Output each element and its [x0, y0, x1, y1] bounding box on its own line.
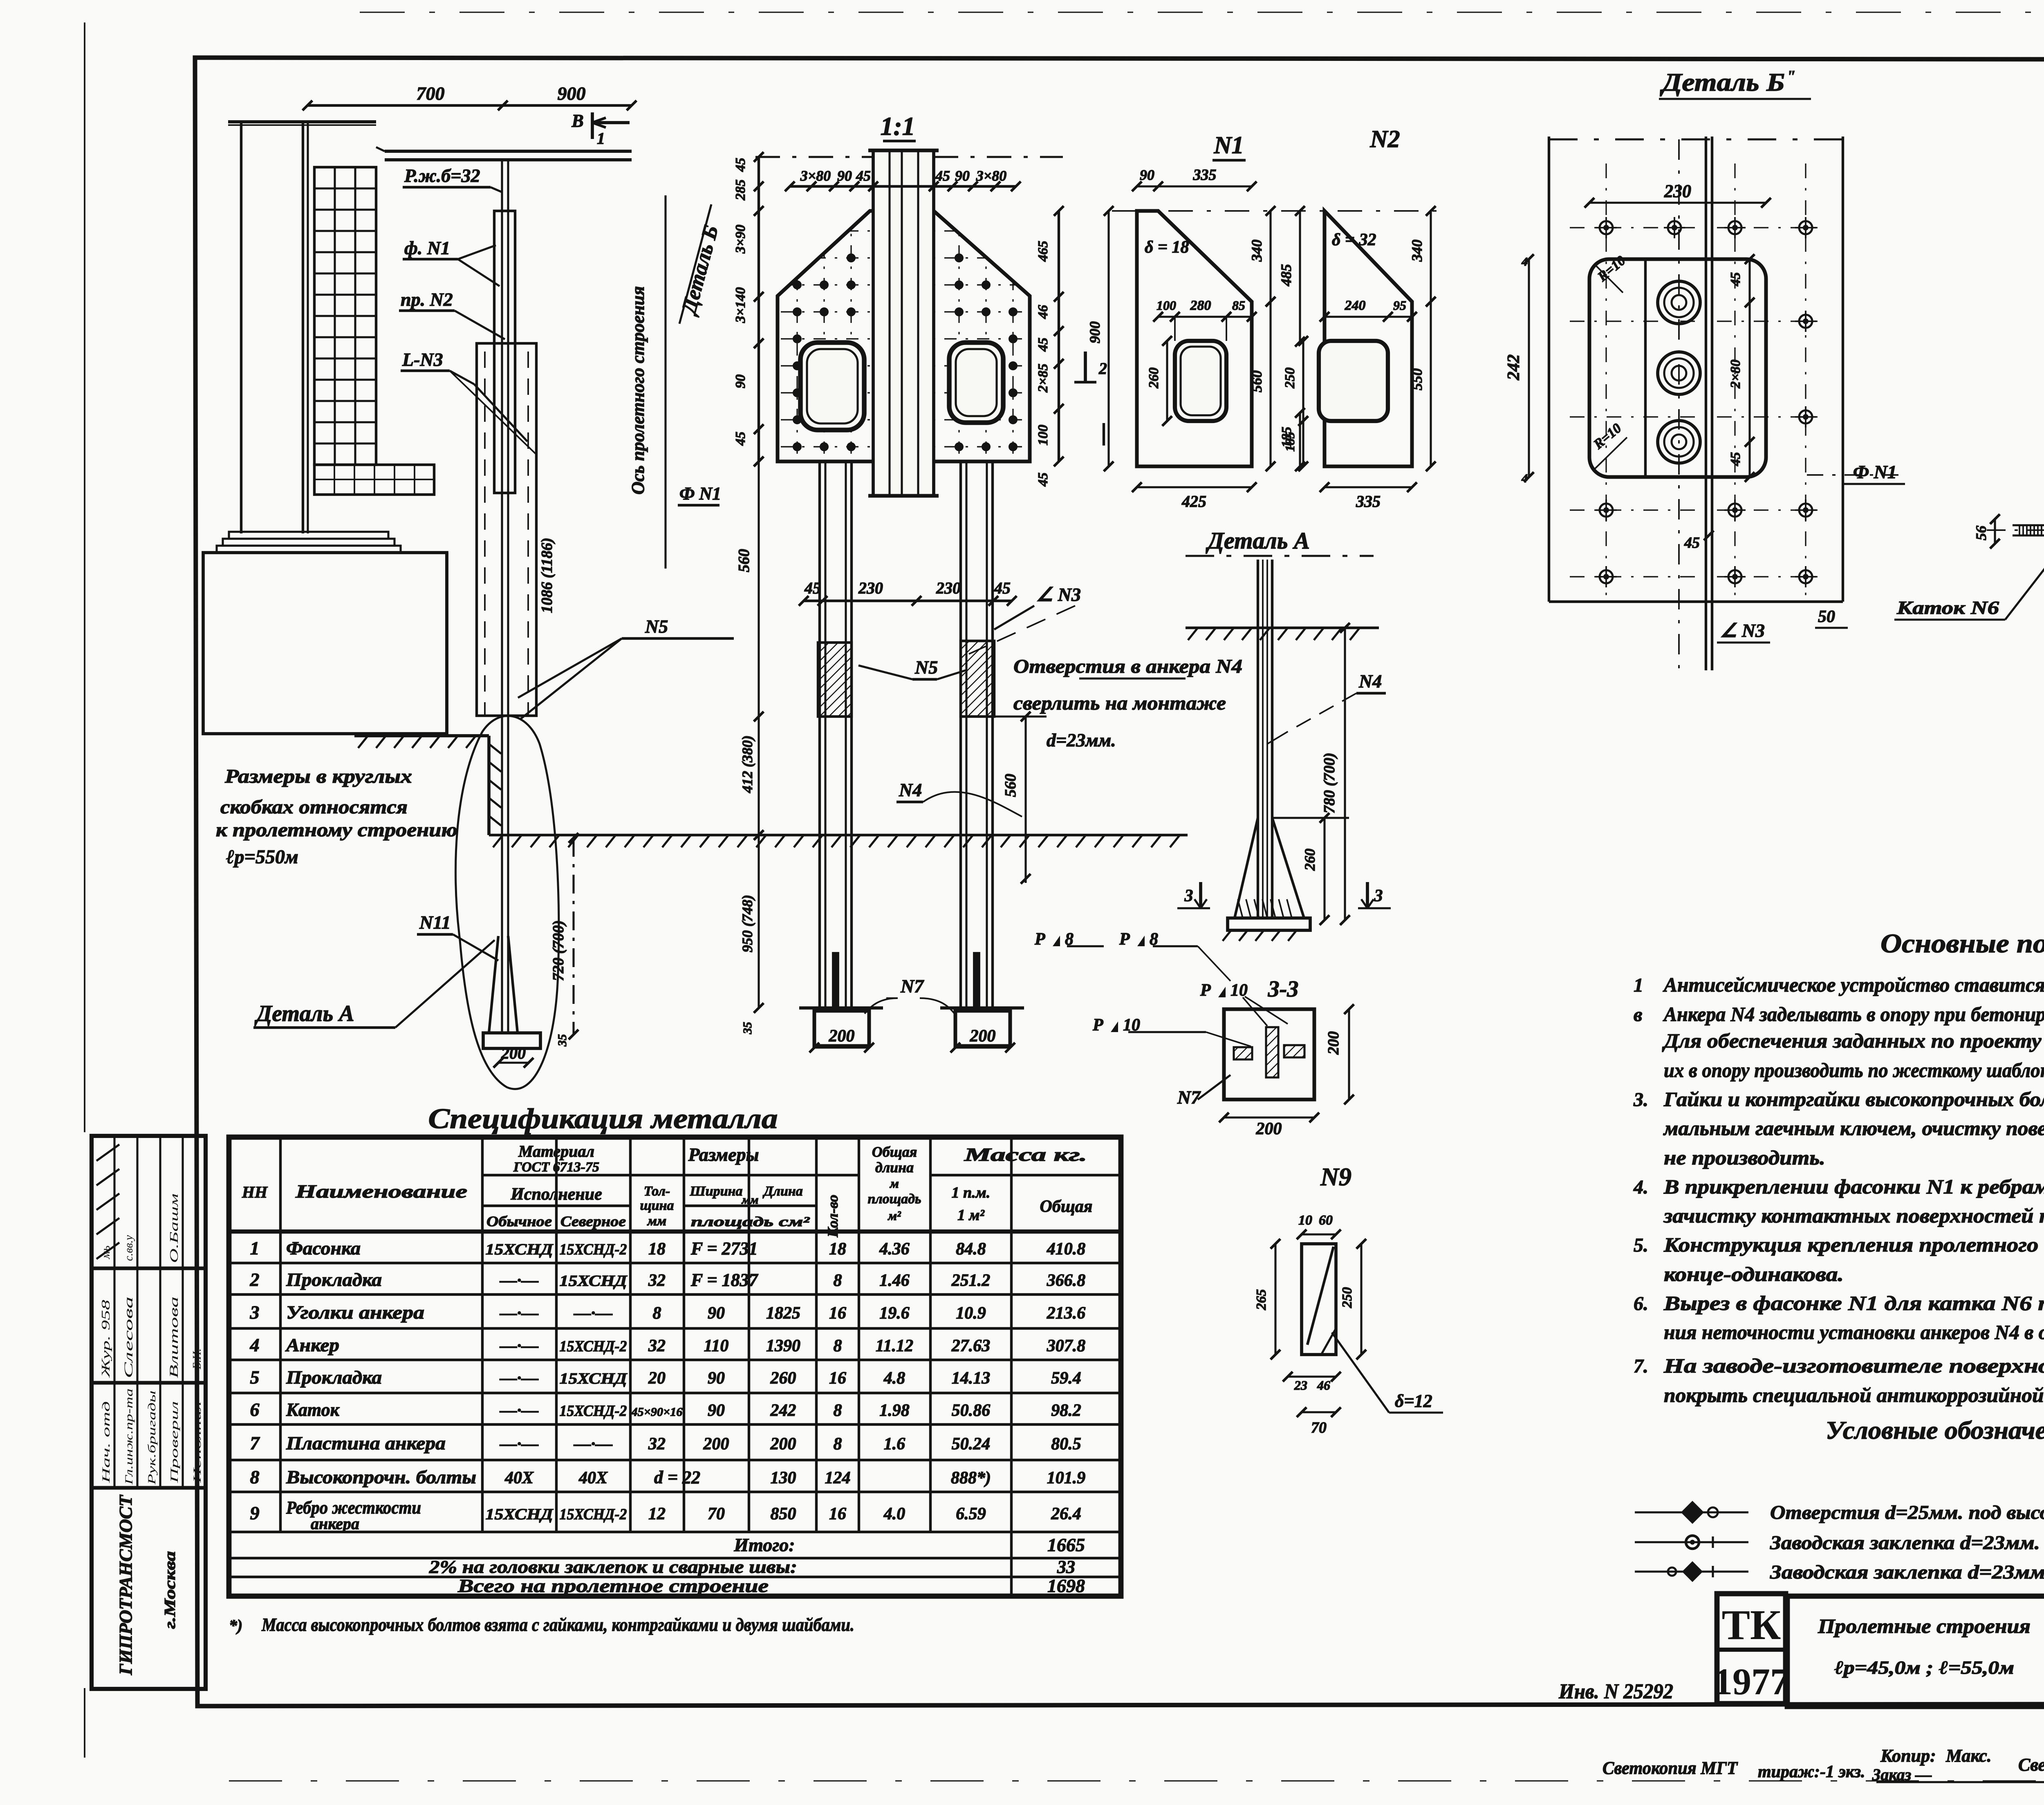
svg-text:46: 46 — [1317, 1378, 1330, 1393]
svg-text:Условные обозначения:: Условные обозначения: — [1826, 1417, 2044, 1444]
svg-text:80.5: 80.5 — [1051, 1435, 1081, 1453]
svg-text:Итого:: Итого: — [733, 1534, 795, 1555]
svg-text:200: 200 — [703, 1435, 729, 1453]
svg-text:2: 2 — [1098, 359, 1107, 378]
svg-text:∠ N3: ∠ N3 — [1036, 584, 1081, 605]
svg-text:70: 70 — [1311, 1419, 1327, 1436]
svg-text:R=10: R=10 — [1591, 421, 1625, 452]
svg-text:200: 200 — [829, 1027, 855, 1046]
svg-text:20: 20 — [648, 1369, 666, 1388]
svg-text:90: 90 — [837, 168, 852, 184]
svg-text:26.4: 26.4 — [1051, 1505, 1081, 1523]
svg-text:1 п.м.: 1 п.м. — [952, 1184, 991, 1201]
svg-text:5: 5 — [250, 1367, 260, 1388]
svg-text:9: 9 — [250, 1503, 260, 1523]
svg-text:15ХСНД: 15ХСНД — [486, 1241, 554, 1258]
svg-text:2×80: 2×80 — [1728, 360, 1743, 389]
svg-text:100: 100 — [1156, 298, 1176, 313]
svg-text:сверлить на монтаже: сверлить на монтаже — [1013, 692, 1226, 714]
svg-text:Обычное: Обычное — [486, 1213, 552, 1229]
svg-text:Влитова: Влитова — [167, 1297, 181, 1378]
svg-text:250: 250 — [1340, 1287, 1355, 1308]
svg-text:—·—: —·— — [500, 1401, 539, 1420]
svg-text:площадь см²: площадь см² — [691, 1214, 810, 1229]
svg-text:N9: N9 — [1320, 1163, 1351, 1191]
svg-text:4: 4 — [1521, 255, 1528, 269]
svg-text:410.8: 410.8 — [1047, 1240, 1086, 1259]
svg-text:зачистку контактных поверхност: зачистку контактных поверхностей произво… — [1663, 1204, 2044, 1227]
svg-text:2% на головки заклепок и свар: 2% на головки заклепок и сварные швы: — [429, 1557, 797, 1577]
svg-text:45: 45 — [1035, 473, 1051, 487]
svg-text:11.12: 11.12 — [876, 1337, 913, 1355]
svg-text:200: 200 — [1256, 1120, 1282, 1138]
svg-text:780 (700): 780 (700) — [1321, 752, 1338, 813]
svg-text:их в опору производить по жест: их в опору производить по жесткому шабло… — [1664, 1059, 2044, 1082]
svg-text:45: 45 — [733, 158, 748, 172]
svg-text:15ХСНД: 15ХСНД — [560, 1370, 628, 1387]
svg-text:230: 230 — [936, 579, 961, 597]
svg-text:200: 200 — [770, 1435, 796, 1453]
svg-text:δ=12: δ=12 — [1395, 1391, 1432, 1411]
svg-text:1 м²: 1 м² — [957, 1207, 985, 1224]
svg-text:Инв. N 25292: Инв. N 25292 — [1558, 1680, 1673, 1703]
svg-text:7: 7 — [250, 1433, 260, 1453]
svg-text:Деталь А: Деталь А — [1206, 527, 1310, 554]
svg-text:307.8: 307.8 — [1047, 1337, 1086, 1355]
svg-text:Ф N1: Ф N1 — [679, 484, 721, 504]
svg-text:На заводе-изготовителе поверхн: На заводе-изготовителе поверхность анкер… — [1663, 1354, 2044, 1377]
svg-text:Жур. 958: Жур. 958 — [100, 1300, 112, 1378]
svg-text:δ = 18: δ = 18 — [1145, 238, 1189, 257]
svg-text:340: 340 — [1409, 240, 1425, 262]
svg-text:425: 425 — [1181, 492, 1206, 511]
svg-text:∠ N3: ∠ N3 — [1720, 620, 1765, 641]
svg-text:Деталь А: Деталь А — [254, 1001, 354, 1026]
svg-text:185: 185 — [1282, 432, 1297, 452]
svg-text:90: 90 — [708, 1401, 725, 1420]
svg-text:Р: Р — [1119, 930, 1130, 949]
svg-text:230: 230 — [1664, 181, 1691, 201]
svg-text:N7: N7 — [900, 976, 924, 997]
svg-text:50.86: 50.86 — [952, 1401, 991, 1420]
svg-text:г.Москва: г.Москва — [161, 1551, 179, 1629]
svg-text:124: 124 — [825, 1469, 851, 1487]
svg-text:м²: м² — [887, 1208, 901, 1223]
svg-text:8: 8 — [834, 1401, 842, 1420]
svg-text:ГОСТ 6713-75: ГОСТ 6713-75 — [513, 1160, 599, 1175]
svg-text:О.Башм: О.Башм — [168, 1194, 181, 1263]
svg-text:Пластина анкера: Пластина анкера — [286, 1433, 446, 1453]
svg-text:N4: N4 — [1358, 671, 1382, 692]
svg-text:N5: N5 — [645, 616, 668, 637]
svg-text:1.46: 1.46 — [879, 1271, 910, 1290]
svg-text:N7: N7 — [1177, 1087, 1201, 1108]
svg-text:100: 100 — [1035, 425, 1051, 446]
svg-text:340: 340 — [1248, 240, 1265, 262]
svg-text:850: 850 — [771, 1505, 796, 1523]
svg-text:d=23мм.: d=23мм. — [1047, 730, 1116, 750]
svg-text:40Х: 40Х — [504, 1469, 534, 1487]
svg-text:Сверил:: Сверил: — [2018, 1755, 2044, 1775]
svg-text:—·—: —·— — [500, 1271, 539, 1290]
svg-text:45: 45 — [994, 579, 1011, 597]
svg-text:Анкер: Анкер — [285, 1335, 339, 1355]
svg-text:700: 700 — [417, 83, 445, 104]
svg-text:Р: Р — [1092, 1016, 1103, 1035]
svg-text:1:1: 1:1 — [880, 112, 915, 141]
svg-text:Всего на пролетное строение: Всего на пролетное строение — [457, 1575, 769, 1596]
svg-text:НН: НН — [242, 1183, 268, 1201]
svg-text:14.13: 14.13 — [952, 1369, 991, 1388]
svg-text:242: 242 — [1504, 354, 1523, 381]
svg-text:46: 46 — [1035, 305, 1051, 319]
svg-text:ния неточности установки анкер: ния неточности установки анкеров N4 в оп… — [1664, 1321, 2044, 1344]
svg-text:Исполнение: Исполнение — [510, 1185, 602, 1204]
svg-text:242: 242 — [770, 1401, 796, 1420]
svg-text:ℓр=550м: ℓр=550м — [226, 846, 298, 868]
svg-text:45: 45 — [1728, 452, 1743, 466]
svg-text:32: 32 — [648, 1337, 666, 1355]
svg-text:260: 260 — [1302, 849, 1318, 871]
svg-text:Отверстия d=25мм. под высокопр: Отверстия d=25мм. под высокопрочный болт… — [1770, 1502, 2044, 1523]
svg-text:40Х: 40Х — [578, 1469, 608, 1487]
svg-text:3: 3 — [1184, 887, 1193, 905]
svg-text:1: 1 — [250, 1238, 260, 1259]
svg-text:1: 1 — [597, 129, 605, 148]
svg-text:ТК: ТК — [1722, 1601, 1781, 1648]
svg-text:Антисейсмическое устройство ст: Антисейсмическое устройство ставится тол… — [1663, 973, 2044, 996]
svg-text:45: 45 — [1684, 534, 1700, 551]
svg-text:L-N3: L-N3 — [402, 349, 443, 370]
svg-text:3×140: 3×140 — [733, 287, 748, 323]
svg-text:мм: мм — [741, 1193, 758, 1207]
svg-text:45: 45 — [856, 168, 871, 184]
svg-text:Масса высокопрочных болтов взя: Масса высокопрочных болтов взята с гайка… — [261, 1614, 854, 1635]
svg-text:3.: 3. — [1633, 1089, 1648, 1111]
svg-text:щина: щина — [640, 1198, 674, 1213]
svg-text:560: 560 — [1248, 370, 1265, 392]
svg-text:Вырез в фасонке N1 для катка N: Вырез в фасонке N1 для катка N6 принят с… — [1663, 1292, 2044, 1315]
svg-text:7.: 7. — [1634, 1355, 1648, 1377]
svg-text:15ХСНД-2: 15ХСНД-2 — [560, 1338, 627, 1355]
svg-text:4: 4 — [1521, 472, 1528, 485]
svg-text:Прокладка: Прокладка — [286, 1269, 382, 1290]
svg-text:260: 260 — [1146, 367, 1161, 389]
svg-text:720 (700): 720 (700) — [550, 920, 567, 981]
svg-text:Анкера N4 заделывать в опору п: Анкера N4 заделывать в опору при бетонир… — [1663, 1003, 2044, 1026]
svg-text:45: 45 — [733, 432, 748, 446]
svg-text:—·—: —·— — [574, 1435, 613, 1453]
svg-text:3×80: 3×80 — [976, 168, 1007, 184]
svg-text:18: 18 — [648, 1240, 666, 1259]
svg-text:Копир:: Копир: — [1880, 1746, 1936, 1766]
svg-text:Северное: Северное — [560, 1213, 626, 1229]
svg-text:—·—: —·— — [500, 1435, 539, 1453]
svg-text:45: 45 — [1035, 338, 1051, 352]
svg-text:мальным гаечным ключем, очистк: мальным гаечным ключем, очистку поверхно… — [1663, 1117, 2044, 1140]
svg-text:1698: 1698 — [1047, 1575, 1085, 1596]
svg-text:не производить.: не производить. — [1664, 1146, 1825, 1169]
svg-text:Деталь Б: Деталь Б — [677, 223, 723, 318]
svg-text:1390: 1390 — [766, 1337, 800, 1355]
svg-text:ф. N1: ф. N1 — [404, 237, 450, 258]
svg-text:1665: 1665 — [1047, 1534, 1085, 1555]
svg-text:32: 32 — [648, 1435, 666, 1453]
svg-text:Масса кг.: Масса кг. — [964, 1144, 1087, 1165]
svg-text:4.0: 4.0 — [883, 1505, 905, 1523]
svg-text:465: 465 — [1035, 241, 1051, 262]
svg-text:265: 265 — [1254, 1289, 1269, 1310]
svg-text:длина: длина — [875, 1159, 914, 1176]
svg-text:33: 33 — [1057, 1557, 1075, 1577]
svg-text:10: 10 — [1298, 1213, 1312, 1228]
svg-text:32: 32 — [648, 1271, 666, 1290]
svg-text:Тол-: Тол- — [644, 1184, 670, 1199]
svg-text:18: 18 — [829, 1240, 846, 1259]
svg-text:15ХСНД: 15ХСНД — [486, 1506, 554, 1523]
svg-text:1: 1 — [1634, 974, 1643, 996]
svg-text:15ХСНД-2: 15ХСНД-2 — [560, 1506, 627, 1523]
svg-text:в: в — [1634, 1004, 1642, 1026]
svg-text:15ХСНД: 15ХСНД — [560, 1272, 628, 1290]
svg-text:Слесова: Слесова — [122, 1297, 135, 1378]
svg-text:2×85: 2×85 — [1035, 364, 1051, 393]
svg-text:59.4: 59.4 — [1051, 1369, 1081, 1388]
svg-text:16: 16 — [829, 1304, 846, 1323]
svg-text:85: 85 — [1232, 298, 1245, 313]
svg-text:56: 56 — [1973, 526, 1989, 540]
svg-text:335: 335 — [1356, 492, 1381, 511]
svg-text:230: 230 — [858, 579, 883, 597]
svg-text:Нач. отд: Нач. отд — [100, 1401, 112, 1484]
svg-text:Каток N6: Каток N6 — [1896, 597, 1999, 618]
svg-text:N5: N5 — [914, 657, 938, 678]
svg-text:F = 2731: F = 2731 — [690, 1238, 758, 1259]
svg-text:Р: Р — [1200, 981, 1211, 1000]
svg-text:3×80: 3×80 — [800, 168, 831, 184]
svg-text:90: 90 — [955, 168, 970, 184]
svg-text:δ = 32: δ = 32 — [1332, 231, 1376, 249]
svg-text:110: 110 — [704, 1337, 729, 1355]
svg-text:d = 22: d = 22 — [654, 1467, 700, 1487]
svg-text:": " — [1786, 67, 1795, 85]
svg-text:Ось пролетного строения: Ось пролетного строения — [628, 286, 648, 495]
svg-text:16: 16 — [829, 1505, 846, 1523]
svg-text:45×90×16: 45×90×16 — [631, 1405, 682, 1419]
svg-text:260: 260 — [770, 1369, 796, 1388]
svg-text:Фасонка: Фасонка — [286, 1238, 361, 1259]
svg-text:Отверстия в анкера N4: Отверстия в анкера N4 — [1013, 656, 1242, 677]
svg-text:Гайки и контргайки высокопрочн: Гайки и контргайки высокопрочных болтов … — [1663, 1088, 2044, 1111]
svg-text:6: 6 — [250, 1399, 260, 1420]
svg-text:Заказ —: Заказ — — [1872, 1765, 1932, 1784]
svg-text:70: 70 — [708, 1505, 725, 1523]
svg-text:950 (748): 950 (748) — [739, 895, 755, 952]
svg-text:8: 8 — [834, 1271, 842, 1290]
svg-text:95: 95 — [1393, 298, 1406, 313]
svg-text:Р: Р — [1034, 930, 1045, 949]
svg-text:45: 45 — [804, 579, 821, 597]
svg-text:Уголки анкера: Уголки анкера — [286, 1302, 424, 1323]
svg-text:8: 8 — [250, 1467, 260, 1487]
svg-text:560: 560 — [1002, 774, 1019, 797]
svg-text:900: 900 — [1087, 321, 1103, 343]
svg-text:конце-одинакова.: конце-одинакова. — [1664, 1263, 1844, 1285]
svg-text:Макс.: Макс. — [1945, 1746, 1992, 1766]
svg-text:90: 90 — [708, 1304, 725, 1323]
svg-text:84.8: 84.8 — [956, 1240, 986, 1259]
svg-text:Конструкция крепления пролетно: Конструкция крепления пролетного строени… — [1663, 1233, 2044, 1256]
svg-text:Размеры в круглых: Размеры в круглых — [224, 766, 412, 787]
svg-text:Общая: Общая — [872, 1144, 917, 1160]
svg-text:F = 1837: F = 1837 — [690, 1270, 759, 1290]
svg-text:м: м — [889, 1176, 899, 1191]
svg-text:3: 3 — [1374, 887, 1383, 905]
svg-text:90: 90 — [708, 1369, 725, 1388]
svg-text:Высокопрочн. болты: Высокопрочн. болты — [286, 1467, 476, 1487]
svg-text:Длина: Длина — [762, 1184, 802, 1199]
svg-text:В: В — [571, 111, 583, 131]
svg-text:250: 250 — [1282, 367, 1298, 389]
svg-text:Наименование: Наименование — [295, 1181, 467, 1202]
svg-text:—·—: —·— — [500, 1369, 539, 1388]
svg-text:пр. N2: пр. N2 — [401, 289, 453, 310]
svg-text:1086 (1186): 1086 (1186) — [538, 537, 556, 613]
svg-text:Основные положения:: Основные положения: — [1880, 929, 2044, 958]
svg-text:N1: N1 — [1213, 132, 1244, 159]
svg-text:Пролетные строения: Пролетные строения — [1818, 1615, 2031, 1637]
svg-text:Проверил: Проверил — [168, 1401, 180, 1484]
svg-text:285: 285 — [733, 179, 748, 201]
svg-text:6.59: 6.59 — [956, 1505, 986, 1523]
svg-text:12: 12 — [648, 1505, 666, 1523]
svg-text:19.6: 19.6 — [879, 1304, 910, 1323]
svg-text:*): *) — [229, 1616, 242, 1635]
svg-text:213.6: 213.6 — [1047, 1304, 1086, 1323]
svg-text:550: 550 — [1409, 368, 1425, 390]
svg-text:Кол-во: Кол-во — [825, 1195, 841, 1238]
svg-text:—·—: —·— — [500, 1337, 539, 1355]
svg-text:485: 485 — [1278, 264, 1294, 287]
svg-text:130: 130 — [771, 1469, 796, 1487]
svg-text:4.8: 4.8 — [883, 1369, 905, 1388]
svg-text:251.2: 251.2 — [951, 1271, 991, 1290]
svg-text:27.63: 27.63 — [951, 1337, 991, 1355]
svg-text:1.6: 1.6 — [884, 1435, 905, 1453]
svg-text:35: 35 — [741, 1022, 754, 1035]
svg-text:ГИПРОТРАНСМОСТ: ГИПРОТРАНСМОСТ — [116, 1494, 136, 1675]
svg-text:анкера: анкера — [311, 1514, 359, 1533]
svg-text:280: 280 — [1190, 298, 1211, 313]
svg-text:Б.И.: Б.И. — [191, 1348, 204, 1370]
svg-text:366.8: 366.8 — [1047, 1271, 1086, 1290]
svg-text:N4: N4 — [899, 779, 922, 800]
svg-text:мм: мм — [647, 1214, 667, 1229]
svg-text:8: 8 — [834, 1337, 842, 1355]
svg-text:1977: 1977 — [1714, 1661, 1789, 1702]
svg-text:Р.ж.б=32: Р.ж.б=32 — [404, 165, 480, 186]
svg-text:с.вв.у: с.вв.у — [123, 1235, 135, 1261]
svg-text:900: 900 — [558, 83, 586, 104]
svg-text:50.24: 50.24 — [952, 1435, 991, 1453]
svg-text:Исполнил: Исполнил — [191, 1401, 203, 1484]
svg-text:площадь: площадь — [867, 1191, 921, 1207]
svg-text:888*): 888*) — [951, 1469, 991, 1487]
svg-text:тираж:-1 экз.: тираж:-1 экз. — [1758, 1762, 1865, 1781]
svg-text:8: 8 — [653, 1304, 661, 1323]
svg-text:Спецификация металла: Спецификация металла — [428, 1103, 778, 1135]
svg-text:200: 200 — [1325, 1031, 1342, 1055]
svg-text:1825: 1825 — [766, 1304, 800, 1323]
svg-text:Материал: Материал — [518, 1142, 594, 1160]
svg-text:—·—: —·— — [574, 1304, 613, 1323]
svg-text:240: 240 — [1345, 298, 1366, 313]
svg-text:Заводская заклепка d=23мм.-дво: Заводская заклепка d=23мм.-двойной потай… — [1770, 1561, 2044, 1583]
svg-text:1.98: 1.98 — [879, 1401, 910, 1420]
svg-text:3×90: 3×90 — [733, 225, 748, 254]
svg-text:Для обеспечения заданных по пр: Для обеспечения заданных по проекту разм… — [1662, 1029, 2044, 1052]
svg-text:45: 45 — [935, 168, 950, 184]
svg-text:Гл.инж.пр-та: Гл.инж.пр-та — [123, 1388, 135, 1485]
svg-text:Ширина: Ширина — [690, 1184, 743, 1199]
svg-text:3-3: 3-3 — [1268, 976, 1299, 1002]
svg-text:Ф N1: Ф N1 — [1853, 461, 1897, 482]
svg-text:N11: N11 — [419, 912, 451, 933]
svg-text:Прокладка: Прокладка — [286, 1367, 382, 1388]
svg-text:ℓр=45,0м ; ℓ=55,0м: ℓр=45,0м ; ℓ=55,0м — [1834, 1657, 2014, 1678]
svg-text:16: 16 — [829, 1369, 846, 1388]
svg-text:к пролетному строению: к пролетному строению — [216, 819, 457, 841]
svg-text:6.: 6. — [1634, 1293, 1648, 1315]
svg-text:3: 3 — [250, 1302, 260, 1323]
svg-text:90: 90 — [733, 374, 748, 388]
svg-text:—·—: —·— — [500, 1304, 539, 1323]
svg-text:15ХСНД-2: 15ХСНД-2 — [560, 1402, 627, 1420]
svg-text:200: 200 — [970, 1027, 996, 1046]
svg-text:98.2: 98.2 — [1051, 1401, 1081, 1420]
svg-text:50: 50 — [1818, 607, 1835, 626]
svg-text:мь: мь — [99, 1245, 112, 1259]
svg-text:8: 8 — [834, 1435, 842, 1453]
svg-text:90: 90 — [1140, 167, 1154, 183]
svg-text:200: 200 — [501, 1044, 526, 1062]
svg-text:Деталь Б: Деталь Б — [1660, 69, 1785, 96]
svg-text:15ХСНД-2: 15ХСНД-2 — [560, 1241, 627, 1258]
svg-text:101.9: 101.9 — [1047, 1469, 1086, 1487]
svg-text:В прикреплении фасонки N1 к ре: В прикреплении фасонки N1 к ребрам жестк… — [1663, 1175, 2044, 1198]
svg-text:скобках относятся: скобках относятся — [220, 796, 408, 818]
svg-text:5.: 5. — [1634, 1234, 1648, 1256]
svg-text:Каток: Каток — [286, 1399, 340, 1420]
svg-text:Общая: Общая — [1040, 1197, 1093, 1216]
svg-text:45: 45 — [1728, 272, 1743, 287]
svg-text:335: 335 — [1193, 166, 1217, 184]
svg-text:Рук.бригады: Рук.бригады — [146, 1391, 158, 1485]
svg-text:Заводская заклепка d=23мм.: Заводская заклепка d=23мм. — [1770, 1532, 2040, 1554]
svg-text:412 (380): 412 (380) — [739, 735, 755, 793]
svg-text:35: 35 — [556, 1034, 569, 1047]
svg-text:N2: N2 — [1369, 125, 1400, 152]
svg-text:4.: 4. — [1633, 1176, 1648, 1198]
svg-text:60: 60 — [1319, 1213, 1333, 1228]
svg-text:560: 560 — [735, 549, 753, 572]
svg-text:23: 23 — [1294, 1378, 1307, 1393]
svg-text:2: 2 — [250, 1269, 260, 1290]
svg-text:4.36: 4.36 — [879, 1240, 910, 1259]
svg-text:Размеры: Размеры — [688, 1144, 759, 1165]
svg-text:Светокопия МГТ: Светокопия МГТ — [1602, 1758, 1738, 1778]
svg-text:10.9: 10.9 — [956, 1304, 986, 1323]
